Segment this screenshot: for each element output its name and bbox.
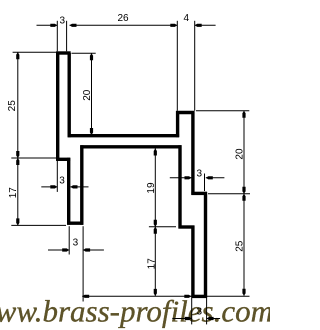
dim line 3d right tail	[207, 318, 221, 320]
svg-text:3: 3	[60, 16, 66, 27]
arrow 20r top	[242, 111, 245, 118]
svg-text:3: 3	[59, 176, 65, 187]
profile left leg bottom cap	[67, 221, 83, 224]
dim line 3c left tail	[48, 249, 69, 251]
arrow top3 left	[50, 24, 57, 27]
arrow 26 left	[70, 24, 77, 27]
svg-text:25: 25	[235, 240, 246, 252]
arrow 3c right	[83, 248, 90, 251]
dim line 3e left tail	[170, 177, 192, 179]
dim line top 3 tail	[37, 24, 58, 26]
arrow 3b right	[71, 185, 78, 188]
arrow 20l top	[90, 53, 93, 60]
ext line left 25/17 mid	[11, 157, 56, 159]
profile left leg right edge	[80, 145, 83, 224]
arrow 17 bottom	[16, 218, 19, 225]
profile right wall bottom cap	[191, 295, 207, 298]
ext line left 17 bottom	[11, 224, 66, 226]
arrow bottom dim left	[82, 295, 89, 298]
profile left wall top cap	[56, 51, 70, 54]
arrow 3e left	[185, 176, 192, 179]
ext line right 20 top	[196, 110, 249, 112]
arrow 25r bottom	[242, 289, 245, 296]
profile left wall right edge	[67, 53, 70, 137]
ext line 3e	[204, 174, 206, 192]
arrow 20l bottom	[90, 128, 93, 135]
ext line 3c left	[68, 226, 70, 254]
bottom long dim line	[82, 295, 249, 297]
svg-text:25: 25	[7, 100, 18, 112]
profile right wall left edge lower	[191, 226, 194, 298]
arrow 17b top	[154, 227, 157, 234]
arrow 4 right	[195, 24, 202, 27]
dim line right 20/25	[243, 111, 245, 296]
profile left wall left edge	[56, 52, 59, 161]
svg-text:3: 3	[197, 169, 203, 180]
ext line 3c right	[82, 226, 84, 301]
profile right wall right edge upper	[191, 111, 194, 195]
svg-text:17: 17	[8, 187, 19, 199]
profile right wall left edge upper	[176, 111, 179, 137]
ext line 3d left	[191, 298, 193, 324]
arrow 25 top	[16, 52, 19, 59]
arrow 3e right	[206, 176, 213, 179]
svg-text:19: 19	[146, 182, 157, 194]
profile right wall right edge lower	[204, 192, 207, 298]
arrow 17 top	[16, 158, 19, 165]
svg-text:www.brass-profiles.com: www.brass-profiles.com	[0, 294, 270, 329]
dim line left 25/17	[17, 52, 19, 225]
arrow 3b left	[50, 185, 57, 188]
dim line middle 19/17	[154, 149, 156, 296]
dim line 3b left tail	[41, 186, 57, 188]
profile right wall step cap	[191, 192, 207, 195]
arrow 26 right	[170, 24, 177, 27]
arrow 19 top	[154, 149, 157, 156]
dim line 26	[70, 24, 178, 26]
profile middle bar top edge	[68, 134, 179, 137]
arrow 3d right	[207, 317, 214, 320]
ext line middle 19/17 boundary	[149, 226, 176, 228]
ext line right 20/25 boundary	[208, 193, 250, 195]
profile right wall top cap	[176, 111, 194, 114]
arrow 25 bottom	[16, 151, 19, 158]
arrow 20r bottom	[242, 187, 245, 194]
arrow 25r top	[242, 194, 245, 201]
svg-text:26: 26	[117, 13, 129, 24]
dim line 3e right tail	[206, 177, 225, 179]
svg-text:20: 20	[82, 89, 93, 101]
ext line top 3 right	[66, 21, 68, 52]
ext line top 4 right	[194, 21, 196, 111]
dim line 3d left tail	[172, 318, 191, 320]
svg-text:3: 3	[73, 237, 79, 248]
dim line left 20	[91, 53, 93, 135]
svg-text:20: 20	[235, 148, 246, 160]
ext line left 25 top	[13, 51, 56, 53]
profile left wall step cap	[56, 158, 70, 161]
svg-text:3: 3	[197, 307, 203, 318]
ext line top 26/4	[176, 21, 178, 111]
arrow bottom dim right	[184, 295, 191, 298]
arrow 3c left	[62, 248, 69, 251]
arrow 3d left	[185, 317, 192, 320]
arrow 17b bottom	[154, 289, 157, 296]
profile right wall jog cap	[179, 225, 195, 228]
svg-text:4: 4	[184, 13, 190, 24]
svg-text:17: 17	[146, 258, 157, 270]
profile left leg left edge	[67, 158, 70, 225]
ext line 3d right	[206, 298, 208, 324]
dim line 4 tail	[195, 24, 216, 26]
ext line top 3 left	[56, 21, 58, 52]
profile middle bar bottom edge	[80, 145, 181, 148]
dim line 3c right tail	[83, 249, 104, 251]
profile right wall left edge mid	[178, 145, 181, 228]
ext line 3b	[56, 161, 58, 192]
arrow 19 bottom	[154, 220, 157, 227]
dim line 3b right tail	[71, 186, 89, 188]
ext line left 20 top	[72, 52, 96, 54]
